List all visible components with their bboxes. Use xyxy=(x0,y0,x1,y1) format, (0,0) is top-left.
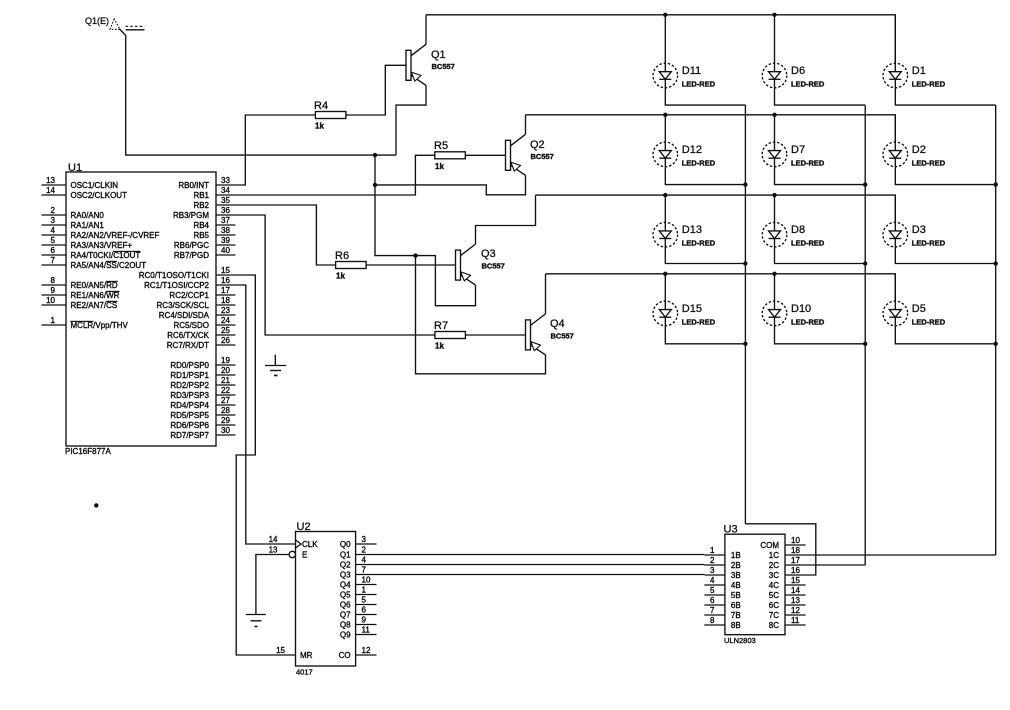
wire D5 cathode to column bus xyxy=(895,326,995,344)
junction dot node emitter net B xyxy=(373,183,377,187)
svg-text:17: 17 xyxy=(221,286,230,295)
svg-text:Q3: Q3 xyxy=(481,248,496,260)
wire RB1 pin34 to R5 xyxy=(216,155,435,195)
LED D5 xyxy=(883,301,908,326)
svg-text:33: 33 xyxy=(221,176,230,185)
svg-text:Q1: Q1 xyxy=(340,551,351,560)
svg-text:24: 24 xyxy=(221,316,230,325)
svg-text:11: 11 xyxy=(362,626,371,635)
svg-text:BC557: BC557 xyxy=(482,262,505,271)
svg-text:5C: 5C xyxy=(769,591,779,600)
LED D13 xyxy=(653,222,678,247)
svg-text:R4: R4 xyxy=(314,100,328,112)
wire R5 to Q2 base xyxy=(465,154,505,156)
svg-text:D2: D2 xyxy=(912,144,926,156)
svg-text:14: 14 xyxy=(791,586,800,595)
svg-text:Q0: Q0 xyxy=(340,540,351,549)
svg-text:27: 27 xyxy=(221,396,230,405)
svg-text:20: 20 xyxy=(221,366,230,375)
svg-text:4: 4 xyxy=(51,226,56,235)
wire D8 anode from rail xyxy=(774,195,776,222)
svg-text:RC7/RX/DT: RC7/RX/DT xyxy=(167,341,209,350)
svg-text:37: 37 xyxy=(221,216,230,225)
junction dot rail row3 col2 xyxy=(772,193,776,197)
svg-text:OSC2/CLKOUT: OSC2/CLKOUT xyxy=(71,191,128,200)
wire emitter net vertical xyxy=(375,155,416,256)
svg-text:D15: D15 xyxy=(682,303,702,315)
svg-text:RB2: RB2 xyxy=(193,201,209,210)
svg-text:Q2: Q2 xyxy=(340,561,351,570)
svg-text:16: 16 xyxy=(221,276,230,285)
svg-text:U2: U2 xyxy=(297,521,311,533)
svg-text:3: 3 xyxy=(362,535,367,544)
svg-text:Q5: Q5 xyxy=(340,591,351,600)
junction dot bus col1 row4 xyxy=(743,342,747,346)
svg-text:39: 39 xyxy=(221,236,230,245)
junction dot bus col3 row3 xyxy=(994,261,998,265)
svg-text:E: E xyxy=(302,551,307,560)
svg-text:LED-RED: LED-RED xyxy=(791,317,825,326)
op-amp n/a - IC U1 PIC16F877A body and pin labels xyxy=(66,172,216,446)
junction dot bus col1 row3 xyxy=(743,261,747,265)
svg-text:13: 13 xyxy=(46,176,55,185)
svg-text:6: 6 xyxy=(710,596,715,605)
svg-text:COM: COM xyxy=(760,541,779,550)
svg-text:5: 5 xyxy=(362,596,367,605)
wire RC0 pin15 to U2 CLK xyxy=(216,275,296,544)
svg-text:RC6/TX/CK: RC6/TX/CK xyxy=(167,331,209,340)
LED D8 xyxy=(762,222,787,247)
LED D1 xyxy=(883,63,908,88)
svg-text:6: 6 xyxy=(51,246,56,255)
svg-text:ULN2803: ULN2803 xyxy=(724,636,756,645)
svg-text:26: 26 xyxy=(221,336,230,345)
wire D12 cathode to column bus xyxy=(665,167,745,185)
svg-text:RD5/PSP5: RD5/PSP5 xyxy=(170,411,209,420)
svg-text:35: 35 xyxy=(221,196,230,205)
svg-text:LED-RED: LED-RED xyxy=(912,80,946,89)
svg-text:8: 8 xyxy=(710,616,715,625)
svg-text:MCLR/Vpp/THV: MCLR/Vpp/THV xyxy=(71,321,129,330)
svg-text:1k: 1k xyxy=(336,272,345,281)
wire LED row1 anode rail xyxy=(426,15,895,63)
svg-text:RA1/AN1: RA1/AN1 xyxy=(71,221,105,230)
svg-text:14: 14 xyxy=(46,186,55,195)
svg-text:12: 12 xyxy=(362,646,371,655)
svg-text:RB4: RB4 xyxy=(193,221,209,230)
wire Q1 collector to LED row1 rail xyxy=(425,15,427,45)
svg-text:D7: D7 xyxy=(791,144,805,156)
svg-text:1C: 1C xyxy=(769,551,779,560)
svg-text:Q8: Q8 xyxy=(340,621,351,630)
svg-text:D13: D13 xyxy=(682,224,702,236)
wire cathode column bus 1 xyxy=(744,105,746,524)
svg-text:D1: D1 xyxy=(912,65,926,77)
wire cathode column bus 3 xyxy=(995,105,997,555)
svg-text:5: 5 xyxy=(710,586,715,595)
LED D7 xyxy=(762,142,787,167)
IC U3 ULN2803 body and pin labels xyxy=(725,534,785,635)
svg-text:Q6: Q6 xyxy=(340,601,351,610)
svg-text:13: 13 xyxy=(791,596,800,605)
wire bus2 to U3 2C xyxy=(806,564,866,566)
wire U2 Q1 to U3 1B xyxy=(356,554,705,556)
svg-text:11: 11 xyxy=(791,616,800,625)
svg-text:13: 13 xyxy=(269,546,278,555)
wire D8 cathode to column bus xyxy=(775,247,866,264)
junction dot rail row1 col1 xyxy=(663,13,667,17)
LED D15 xyxy=(653,301,678,326)
svg-text:LED-RED: LED-RED xyxy=(791,239,825,248)
svg-text:LED-RED: LED-RED xyxy=(682,317,716,326)
svg-text:Q3: Q3 xyxy=(340,571,351,580)
node dot (isolated) xyxy=(94,503,98,507)
svg-text:34: 34 xyxy=(221,186,230,195)
wire R6 to Q3 base xyxy=(366,264,455,266)
svg-text:RC3/SCK/SCL: RC3/SCK/SCL xyxy=(157,301,210,310)
wire D7 anode from rail xyxy=(774,115,776,142)
svg-text:4C: 4C xyxy=(769,581,779,590)
svg-text:RD3/PSP3: RD3/PSP3 xyxy=(170,391,209,400)
svg-text:15: 15 xyxy=(791,576,800,585)
svg-text:6B: 6B xyxy=(731,601,741,610)
junction dot rail row4 col1 xyxy=(663,272,667,276)
ground near U1 xyxy=(274,355,276,366)
svg-text:1: 1 xyxy=(51,316,56,325)
resistor R6 xyxy=(336,262,367,269)
svg-text:CLK: CLK xyxy=(302,540,318,549)
svg-text:RE0/AN5/RD: RE0/AN5/RD xyxy=(71,281,118,290)
svg-text:RD2/PSP2: RD2/PSP2 xyxy=(170,381,209,390)
svg-text:16: 16 xyxy=(791,566,800,575)
resistor R4 xyxy=(315,112,346,119)
junction dot node emitter net C xyxy=(413,253,417,257)
wire D12 anode from rail xyxy=(664,115,666,142)
wire D11 anode from rail xyxy=(664,15,666,63)
svg-text:17: 17 xyxy=(791,556,800,565)
svg-text:D5: D5 xyxy=(912,303,926,315)
svg-text:6C: 6C xyxy=(769,601,779,610)
svg-text:4017: 4017 xyxy=(296,668,313,677)
svg-text:RA5/AN4/SS/C2OUT: RA5/AN4/SS/C2OUT xyxy=(71,261,147,270)
wire R4 to Q1 base xyxy=(346,65,406,115)
svg-text:RC2/CCP1: RC2/CCP1 xyxy=(169,291,209,300)
svg-text:7B: 7B xyxy=(731,611,741,620)
svg-text:CO: CO xyxy=(339,651,351,660)
transistor Q1 xyxy=(406,50,411,80)
svg-text:RA4/T0CKI/C1OUT: RA4/T0CKI/C1OUT xyxy=(71,251,141,260)
svg-text:7: 7 xyxy=(51,256,56,265)
transistor Q2 xyxy=(506,140,511,170)
svg-text:3: 3 xyxy=(51,216,56,225)
svg-text:D11: D11 xyxy=(682,65,701,77)
svg-text:7: 7 xyxy=(362,566,367,575)
wire D10 cathode to column bus xyxy=(775,326,866,344)
wire RB2 pin35 to R6 xyxy=(216,205,336,265)
svg-text:9: 9 xyxy=(51,286,56,295)
svg-text:9: 9 xyxy=(362,616,367,625)
svg-text:R5: R5 xyxy=(434,140,448,152)
wire D2 cathode to column bus xyxy=(895,167,995,185)
wire D2 anode from rail xyxy=(894,115,896,142)
svg-text:3C: 3C xyxy=(769,571,779,580)
svg-text:30: 30 xyxy=(221,426,230,435)
wire U2 Q2 to U3 2B xyxy=(356,564,705,566)
svg-text:LED-RED: LED-RED xyxy=(912,239,946,248)
svg-text:2: 2 xyxy=(362,546,367,555)
LED D10 xyxy=(762,301,787,326)
wire D3 cathode to column bus xyxy=(895,247,995,264)
svg-text:RB3/PGM: RB3/PGM xyxy=(173,211,209,220)
wire D1 cathode to column bus xyxy=(895,88,995,105)
junction dot rail row2 col2 xyxy=(772,113,776,117)
svg-text:D3: D3 xyxy=(912,224,926,236)
svg-text:10: 10 xyxy=(791,536,800,545)
svg-text:D8: D8 xyxy=(791,224,805,236)
svg-text:Q7: Q7 xyxy=(340,611,351,620)
svg-text:3: 3 xyxy=(710,566,715,575)
svg-text:RE2/AN7/CS: RE2/AN7/CS xyxy=(71,301,118,310)
svg-text:6: 6 xyxy=(362,606,367,615)
svg-text:28: 28 xyxy=(221,406,230,415)
wire D13 cathode to column bus xyxy=(665,247,745,264)
wire RC1 pin16 to U2 MR xyxy=(216,285,296,655)
svg-text:PIC16F877A: PIC16F877A xyxy=(65,447,111,456)
svg-text:RE1/AN6/WR: RE1/AN6/WR xyxy=(71,291,120,300)
svg-text:15: 15 xyxy=(276,646,285,655)
junction dot rail row1 col2 xyxy=(772,13,776,17)
svg-text:RB5: RB5 xyxy=(193,231,209,240)
svg-text:RC0/T1OSO/T1CKI: RC0/T1OSO/T1CKI xyxy=(139,271,209,280)
resistor R5 xyxy=(435,152,466,159)
svg-text:38: 38 xyxy=(221,226,230,235)
svg-text:8B: 8B xyxy=(731,621,741,630)
svg-text:LED-RED: LED-RED xyxy=(912,158,946,167)
svg-text:RD0/PSP0: RD0/PSP0 xyxy=(170,361,209,370)
svg-text:U3: U3 xyxy=(724,524,738,536)
wire D11 cathode to column bus xyxy=(665,88,745,105)
wire Q1 emitter net xyxy=(396,85,426,155)
junction dot rail row3 col1 xyxy=(663,193,667,197)
svg-text:5: 5 xyxy=(51,236,56,245)
svg-text:1k: 1k xyxy=(435,342,444,351)
svg-text:8C: 8C xyxy=(769,621,779,630)
svg-text:23: 23 xyxy=(221,306,230,315)
wire terminal to emitter net xyxy=(120,29,397,155)
wire U2 Q3 to U3 3B xyxy=(356,574,705,576)
svg-text:RC1/T1OSI/CCP2: RC1/T1OSI/CCP2 xyxy=(144,281,209,290)
svg-text:4: 4 xyxy=(710,576,715,585)
junction dot node emitter net A xyxy=(373,153,377,157)
ground at U2 enable xyxy=(246,614,266,616)
LED D6 xyxy=(762,63,787,88)
svg-text:Q9: Q9 xyxy=(340,631,351,640)
IC U2 4017 body and pin labels xyxy=(296,532,356,667)
svg-text:MR: MR xyxy=(300,651,313,660)
svg-text:1B: 1B xyxy=(731,551,741,560)
svg-text:R7: R7 xyxy=(434,320,448,332)
svg-text:18: 18 xyxy=(791,546,800,555)
wire Q2 collector to LED row2 rail xyxy=(525,115,527,135)
wire bus1 to U3 3C xyxy=(745,524,815,575)
junction dot rail row4 col2 xyxy=(772,272,776,276)
svg-text:U1: U1 xyxy=(68,162,82,174)
svg-text:D6: D6 xyxy=(791,65,805,77)
svg-text:LED-RED: LED-RED xyxy=(682,158,716,167)
svg-text:LED-RED: LED-RED xyxy=(682,80,716,89)
wire Q2 emitter to emitter net xyxy=(375,175,526,195)
svg-text:2: 2 xyxy=(51,206,56,215)
svg-text:10: 10 xyxy=(46,296,55,305)
svg-text:3B: 3B xyxy=(731,571,741,580)
junction dot bus col2 row2 xyxy=(863,182,867,186)
svg-text:10: 10 xyxy=(362,576,371,585)
transistor Q3 xyxy=(456,250,461,280)
svg-text:RD4/PSP4: RD4/PSP4 xyxy=(170,401,209,410)
svg-text:1: 1 xyxy=(710,546,715,555)
svg-text:5B: 5B xyxy=(731,591,741,600)
svg-text:7: 7 xyxy=(710,606,715,615)
svg-text:22: 22 xyxy=(221,386,230,395)
wire RB0 pin33 to R4 xyxy=(216,115,315,185)
svg-text:RD7/PSP7: RD7/PSP7 xyxy=(170,431,209,440)
svg-text:Q1(E): Q1(E) xyxy=(85,16,109,26)
svg-text:1k: 1k xyxy=(315,122,324,131)
svg-text:RA3/AN3/VREF+: RA3/AN3/VREF+ xyxy=(71,241,133,250)
wire D1 anode from rail xyxy=(894,15,896,63)
svg-text:RB1: RB1 xyxy=(193,191,209,200)
wire bus3 to U3 1C xyxy=(806,554,996,556)
svg-text:LED-RED: LED-RED xyxy=(791,158,825,167)
svg-text:Q1: Q1 xyxy=(431,49,446,61)
svg-text:19: 19 xyxy=(221,356,230,365)
terminal symbol (dashed flag) xyxy=(110,19,120,29)
wire R7 to Q4 base xyxy=(465,334,525,336)
wire D15 cathode to column bus xyxy=(665,326,745,344)
wire Q4 collector to LED row4 rail xyxy=(545,274,547,314)
junction dot bus col2 row4 xyxy=(863,342,867,346)
svg-text:40: 40 xyxy=(221,246,230,255)
svg-text:LED-RED: LED-RED xyxy=(791,80,825,89)
svg-text:D12: D12 xyxy=(682,144,702,156)
svg-text:RB6/PGC: RB6/PGC xyxy=(174,241,209,250)
svg-text:8: 8 xyxy=(51,276,56,285)
wire LED row3 anode rail xyxy=(536,195,896,222)
wire U2 E to ground xyxy=(256,555,290,615)
svg-text:21: 21 xyxy=(221,376,230,385)
svg-text:4B: 4B xyxy=(731,581,741,590)
svg-text:RA0/AN0: RA0/AN0 xyxy=(71,211,105,220)
svg-text:1k: 1k xyxy=(435,162,444,171)
svg-text:RB0/INT: RB0/INT xyxy=(178,181,209,190)
svg-text:LED-RED: LED-RED xyxy=(912,317,946,326)
wire D13 anode from rail xyxy=(664,195,666,222)
svg-text:4: 4 xyxy=(362,556,367,565)
svg-text:OSC1/CLKIN: OSC1/CLKIN xyxy=(71,181,119,190)
LED D3 xyxy=(883,222,908,247)
wire LED row4 anode rail xyxy=(546,274,896,301)
wire LED row2 anode rail xyxy=(526,115,896,142)
svg-text:7C: 7C xyxy=(769,611,779,620)
wire D6 anode from rail xyxy=(774,15,776,63)
LED D2 xyxy=(883,142,908,167)
LED D12 xyxy=(653,142,678,167)
svg-text:BC557: BC557 xyxy=(432,62,455,71)
wire cathode column bus 2 xyxy=(864,105,866,565)
resistor R7 xyxy=(435,332,466,339)
svg-text:Q4: Q4 xyxy=(340,581,351,590)
svg-text:D10: D10 xyxy=(791,303,811,315)
svg-text:15: 15 xyxy=(221,266,230,275)
wire Q3 emitter to emitter net xyxy=(416,256,476,306)
svg-text:14: 14 xyxy=(269,535,278,544)
wire D10 anode from rail xyxy=(774,274,776,301)
wire RB3 pin36 to R7 xyxy=(216,215,435,335)
wire D7 cathode to column bus xyxy=(775,167,866,185)
svg-text:RC4/SDI/SDA: RC4/SDI/SDA xyxy=(159,311,210,320)
wire D5 anode from rail xyxy=(894,274,896,301)
wire D15 anode from rail xyxy=(664,274,666,301)
svg-text:Q2: Q2 xyxy=(530,139,545,151)
svg-text:RD6/PSP6: RD6/PSP6 xyxy=(170,421,209,430)
svg-text:1: 1 xyxy=(362,586,367,595)
wire D6 cathode to column bus xyxy=(775,88,866,105)
svg-text:LED-RED: LED-RED xyxy=(682,239,716,248)
svg-text:RD1/PSP1: RD1/PSP1 xyxy=(170,371,209,380)
svg-text:RB7/PGD: RB7/PGD xyxy=(174,251,209,260)
junction dot bus col1 row2 xyxy=(743,182,747,186)
junction dot bus col3 row2 xyxy=(994,182,998,186)
svg-text:BC557: BC557 xyxy=(551,332,574,341)
svg-text:R6: R6 xyxy=(335,250,349,262)
svg-text:36: 36 xyxy=(221,206,230,215)
svg-text:2: 2 xyxy=(710,556,715,565)
svg-text:18: 18 xyxy=(221,296,230,305)
transistor Q4 xyxy=(526,320,531,350)
svg-text:RC5/SDO: RC5/SDO xyxy=(173,321,209,330)
svg-text:RA2/AN2/VREF-/CVREF: RA2/AN2/VREF-/CVREF xyxy=(71,231,160,240)
junction dot bus col2 row3 xyxy=(863,261,867,265)
LED D11 xyxy=(653,63,678,88)
wire Q3 collector to LED row3 rail xyxy=(476,195,536,244)
junction dot rail row2 col1 xyxy=(663,113,667,117)
svg-text:2B: 2B xyxy=(731,561,741,570)
svg-text:25: 25 xyxy=(221,326,230,335)
svg-text:BC557: BC557 xyxy=(531,152,554,161)
svg-text:2C: 2C xyxy=(769,561,779,570)
junction dot bus col3 row4 xyxy=(994,342,998,346)
wire Q4 emitter to emitter net xyxy=(416,256,546,374)
svg-text:Q4: Q4 xyxy=(550,318,565,330)
wire D3 anode from rail xyxy=(894,195,896,222)
svg-text:12: 12 xyxy=(791,606,800,615)
svg-text:29: 29 xyxy=(221,416,230,425)
